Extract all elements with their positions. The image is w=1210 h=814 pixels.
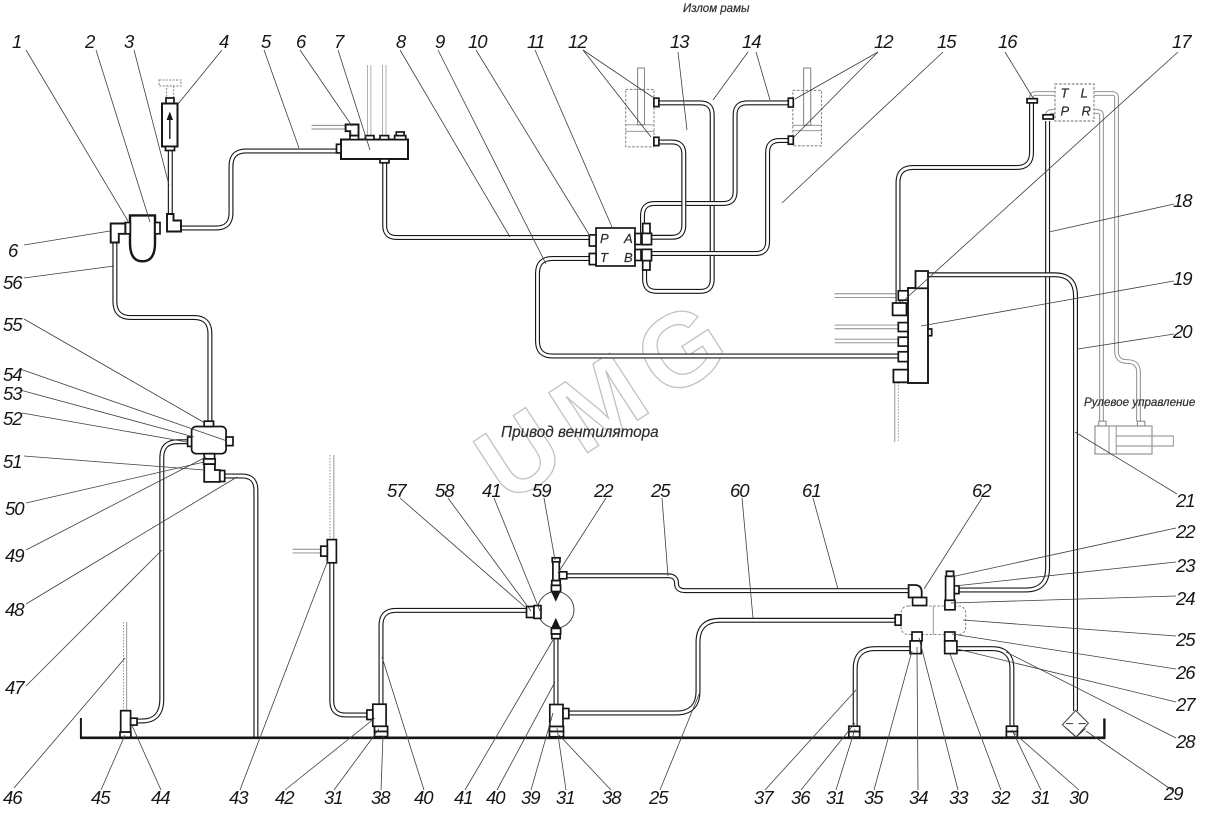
svg-text:P: P	[600, 231, 609, 246]
svg-text:51: 51	[3, 451, 22, 472]
svg-text:31: 31	[1031, 787, 1050, 808]
svg-text:Излом рамы: Излом рамы	[683, 3, 750, 15]
fan pump circle	[538, 592, 574, 628]
svg-text:26: 26	[1175, 662, 1196, 683]
svg-text:11: 11	[527, 31, 544, 52]
svg-text:40: 40	[486, 787, 506, 808]
svg-text:23: 23	[1175, 555, 1196, 576]
svg-text:60: 60	[730, 480, 750, 501]
svg-text:45: 45	[91, 787, 111, 808]
wire pipe 37 motor bottom-left to rail tee36	[855, 649, 910, 727]
svg-text:41: 41	[482, 480, 501, 501]
wire pipe pump bottom to tee39	[555, 638, 557, 705]
svg-text:38: 38	[602, 787, 622, 808]
pump bottom fittings	[551, 628, 560, 638]
tee 44 bottom left	[120, 711, 137, 738]
svg-text:54: 54	[3, 364, 22, 385]
svg-text:57: 57	[387, 480, 407, 501]
svg-text:43: 43	[229, 787, 249, 808]
wire pipe B port to right cylinder lower	[652, 141, 790, 254]
wire pipe 25 T port to valve19	[538, 259, 899, 357]
wire pipe 21 valve19 top elbow to filter30	[926, 275, 1076, 711]
svg-text:34: 34	[909, 787, 928, 808]
wire gray hose TLPR L-port to steering cylinder right port	[1094, 94, 1139, 422]
svg-text:30: 30	[1069, 787, 1089, 808]
svg-text:31: 31	[324, 787, 343, 808]
steering cylinder	[1095, 421, 1173, 454]
svg-text:1: 1	[12, 31, 21, 52]
svg-text:4: 4	[219, 31, 229, 52]
tee 43	[321, 540, 337, 563]
svg-text:35: 35	[864, 787, 884, 808]
wire pipe left cylinder lower to A port	[652, 142, 684, 237]
svg-text:58: 58	[435, 480, 455, 501]
svg-text:27: 27	[1175, 694, 1196, 715]
wire hose stub left of tee43	[293, 550, 322, 552]
svg-text:46: 46	[3, 787, 23, 808]
tee fitting motor bottom-left	[910, 632, 922, 654]
svg-text:22: 22	[593, 480, 614, 501]
svg-text:24: 24	[1175, 588, 1195, 609]
elbow E6 left of filter	[111, 224, 126, 243]
svg-text:59: 59	[532, 480, 551, 501]
svg-text:Привод вентилятора: Привод вентилятора	[501, 424, 659, 441]
svg-text:A: A	[623, 231, 633, 246]
svg-text:49: 49	[5, 545, 24, 566]
wire pipe A tee to right cylinder upper	[643, 103, 790, 233]
pump left port fittings	[527, 606, 542, 619]
fitting pipe18 gray-black	[1043, 115, 1053, 119]
svg-text:2: 2	[84, 31, 96, 52]
wire dashed drain hose below valve19	[895, 382, 899, 442]
svg-text:13: 13	[670, 31, 690, 52]
frame cylinder right	[788, 68, 821, 146]
wire pipe left cylinder upper to B tee loop	[645, 103, 713, 292]
svg-text:16: 16	[998, 31, 1018, 52]
svg-text:P: P	[1061, 104, 1070, 119]
svg-text:L: L	[1081, 86, 1088, 101]
svg-text:T: T	[1061, 86, 1070, 101]
svg-text:25: 25	[648, 787, 669, 808]
wire pipe 61 pump tee to fan motor elbow	[567, 576, 910, 591]
svg-text:28: 28	[1175, 731, 1196, 752]
svg-text:31: 31	[556, 787, 575, 808]
wire pipe 48 elbow51 to tank rail	[225, 476, 256, 737]
tee 39 below pump	[550, 705, 569, 737]
svg-text:T: T	[600, 250, 609, 265]
wire pipe motor bottom-right to rail fitting	[957, 649, 1012, 727]
wire hose to valve19 port1	[835, 295, 899, 297]
wire dashed suction hose above tee44	[123, 622, 126, 710]
svg-text:31: 31	[826, 787, 845, 808]
svg-text:56: 56	[3, 272, 23, 293]
rail fitting below tee36	[849, 726, 860, 737]
svg-text:25: 25	[650, 480, 671, 501]
svg-text:20: 20	[1172, 321, 1193, 342]
svg-text:22: 22	[1175, 521, 1196, 542]
svg-text:37: 37	[754, 787, 774, 808]
svg-text:53: 53	[3, 383, 23, 404]
elbow motor bottom-right	[945, 632, 957, 654]
elbow valve19 bottom	[893, 370, 908, 383]
elbow62 motor top-left	[909, 585, 927, 606]
filter 30 diamond	[1062, 711, 1088, 738]
svg-text:42: 42	[275, 787, 295, 808]
wire pipe 40 tee42 to pump inlet	[381, 610, 527, 704]
wire pipe valve4 down to tee	[169, 149, 171, 214]
tee right of filter	[167, 214, 181, 232]
svg-text:55: 55	[3, 314, 23, 335]
svg-text:62: 62	[972, 480, 992, 501]
rail fitting right 31/30	[1006, 726, 1017, 737]
wire pipe 47 valve53 left port to tee44	[137, 442, 189, 721]
valve19 block	[898, 288, 931, 383]
wire gray hose TLPR T-port	[1032, 94, 1056, 101]
valve PATB	[589, 224, 651, 271]
svg-text:40: 40	[414, 787, 434, 808]
svg-text:61: 61	[802, 480, 821, 501]
svg-text:Рулевое управление: Рулевое управление	[1084, 396, 1196, 409]
svg-text:41: 41	[454, 787, 473, 808]
valve TLPR	[1055, 84, 1094, 121]
svg-text:18: 18	[1173, 190, 1193, 211]
wire hose up from manifold port2	[368, 65, 370, 137]
wire pipe 16 TLPR T to valve19 elbow	[898, 103, 1032, 304]
svg-text:21: 21	[1175, 490, 1195, 511]
svg-text:12: 12	[568, 31, 588, 52]
fan motor body	[895, 606, 966, 635]
svg-text:47: 47	[5, 677, 25, 698]
wire pipe 60 tee39 to fan motor left port	[563, 620, 896, 713]
valve V4 flow indicator	[159, 80, 181, 151]
wire pipe 5 filter tee to manifold	[181, 151, 337, 228]
wire dashed suction hose above tee43	[330, 455, 334, 540]
svg-text:38: 38	[371, 787, 391, 808]
svg-text:29: 29	[1163, 783, 1183, 804]
valve 53 block	[188, 421, 233, 464]
svg-text:33: 33	[949, 787, 969, 808]
svg-text:R: R	[1082, 104, 1091, 119]
svg-text:39: 39	[521, 787, 540, 808]
svg-text:19: 19	[1173, 268, 1192, 289]
elbow E6b on manifold	[346, 125, 359, 136]
tee 42	[367, 704, 388, 736]
filter F2 bowl	[125, 215, 160, 261]
svg-text:52: 52	[3, 408, 23, 429]
wire hose to valve19 port2	[835, 326, 899, 328]
wire hose up from manifold port3	[383, 65, 385, 137]
svg-text:15: 15	[937, 31, 957, 52]
svg-text:9: 9	[435, 31, 445, 52]
svg-text:44: 44	[151, 787, 170, 808]
svg-text:36: 36	[791, 787, 811, 808]
svg-text:10: 10	[468, 31, 488, 52]
svg-text:12: 12	[874, 31, 894, 52]
svg-text:25: 25	[1175, 629, 1196, 650]
svg-text:32: 32	[991, 787, 1011, 808]
wire pipe 18 TLPR P to fan motor tee	[957, 121, 1048, 590]
frame cylinder left	[626, 68, 659, 147]
tank rail	[80, 718, 1106, 738]
wire gray hose TLPR R-port to steering cylinder left port	[1094, 112, 1102, 422]
svg-text:17: 17	[1172, 31, 1192, 52]
wire gray hose TLPR P-port	[1048, 112, 1056, 118]
svg-text:14: 14	[742, 31, 761, 52]
manifold M7	[337, 132, 409, 163]
svg-text:B: B	[624, 250, 633, 265]
wire pipe 8 manifold to P port	[385, 161, 590, 238]
svg-text:50: 50	[5, 498, 25, 519]
elbow 51	[204, 464, 225, 482]
wire hose to valve19 port3	[835, 340, 899, 342]
pump top fittings and tee59	[551, 558, 566, 592]
wire pipe 56 filter elbow to valve53	[115, 242, 210, 422]
svg-text:48: 48	[5, 599, 25, 620]
tee fitting motor top-right	[945, 571, 959, 610]
elbow pipe16 at valve19	[893, 303, 907, 315]
elbow on valve19 top	[916, 271, 929, 288]
fitting pipe16 gray-black	[1027, 99, 1037, 103]
wire pipe tee43 down to tee42	[332, 562, 368, 715]
wire hose elbow-left of manifold	[312, 126, 346, 128]
